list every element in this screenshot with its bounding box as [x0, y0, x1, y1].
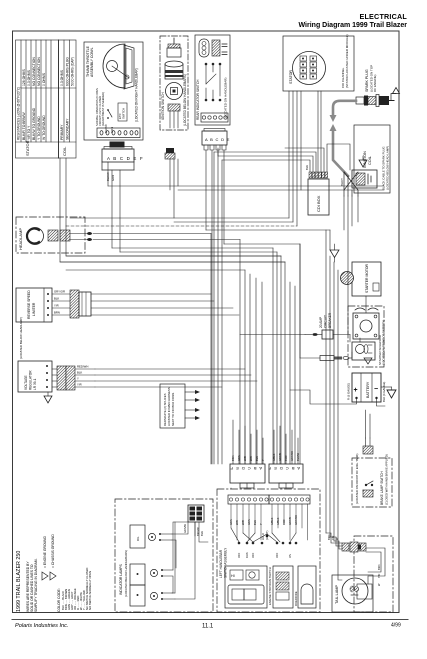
limiter wires: [91, 293, 211, 295]
throttle wires down: [107, 162, 109, 186]
svg-text:HI-LO: HI-LO: [261, 533, 265, 540]
svg-text:COIL: COIL: [62, 146, 67, 156]
svg-text:LR 39-1: LR 39-1: [33, 378, 37, 390]
svg-text:NO SWITCH NORMALLY OPEN: NO SWITCH NORMALLY OPEN: [88, 571, 92, 610]
svg-text:BLK: BLK: [255, 456, 259, 461]
svg-text:(LOCATED ON FRONT OF ENG. TANK: (LOCATED ON FRONT OF ENG. TANK): [355, 453, 359, 504]
svg-text:Y: Y: [77, 377, 79, 381]
svg-text:20 AMP: 20 AMP: [319, 317, 323, 328]
svg-text:+: +: [354, 387, 358, 394]
svg-text:(LOCATED BELOW HANDLEBARS): (LOCATED BELOW HANDLEBARS): [183, 74, 187, 126]
voltage regulator: [18, 317, 95, 403]
svg-text:(LOCATED ON RIGHT HANDLEBAR): (LOCATED ON RIGHT HANDLEBAR): [135, 68, 139, 122]
svg-text:FOR: FOR: [284, 455, 288, 461]
svg-text:OFF: OFF: [237, 552, 241, 558]
ground legend chassis: [50, 572, 56, 580]
svg-text:ELECTRICAL: ELECTRICAL: [359, 12, 407, 21]
svg-text:A/BLK: A/BLK: [272, 453, 276, 461]
svg-text:REAR INDICATOR SWITCH: REAR INDICATOR SWITCH: [196, 79, 200, 120]
ground legend engine: [42, 572, 48, 580]
svg-text:GRN: GRN: [237, 455, 241, 461]
svg-text:4/99: 4/99: [391, 623, 401, 629]
contact diagram: [205, 63, 221, 101]
svg-text:LIMITER: LIMITER: [32, 302, 36, 316]
svg-text:BRN: BRN: [231, 455, 235, 461]
svg-text:GRN: GRN: [111, 175, 115, 181]
svg-text:Y: Y: [261, 459, 265, 461]
svg-text:GRY/OR: GRY/OR: [54, 290, 65, 294]
svg-text:COLOR CODE:: COLOR CODE:: [57, 588, 61, 612]
svg-text:OIL: OIL: [136, 536, 140, 541]
svg-text:Y: Y: [259, 523, 263, 525]
svg-text:LEFT HANDLEBAR: LEFT HANDLEBAR: [219, 549, 223, 578]
svg-text:BLK: BLK: [305, 165, 309, 170]
svg-text:GRY/OR: GRY/OR: [290, 451, 294, 461]
svg-text:BLK/Y: BLK/Y: [340, 178, 344, 186]
headlamp: [16, 217, 92, 253]
svg-text:= ENGINE GROUND: = ENGINE GROUND: [43, 536, 47, 568]
main harness wires: [60, 91, 385, 584]
ground (battery): [387, 390, 396, 398]
svg-text:GRY/R: GRY/R: [288, 517, 292, 525]
key switch circle: [166, 83, 183, 100]
svg-text:GRN: GRN: [229, 519, 233, 525]
fuse feed: [299, 244, 301, 358]
svg-text:RUN: RUN: [245, 552, 249, 558]
svg-text:Wiring Diagram 1999 Trail Blaz: Wiring Diagram 1999 Trail Blazer: [299, 22, 408, 29]
connector below box: [166, 148, 174, 153]
svg-text:STATOR: STATOR: [25, 140, 30, 156]
ETC switch: [118, 103, 127, 121]
svg-text:A B C D E F: A B C D E F: [267, 466, 300, 471]
breaker feed: [240, 334, 305, 336]
rear switch connector wires down: [205, 150, 207, 230]
svg-text:CDI CHANNEL: CDI CHANNEL: [341, 67, 345, 88]
svg-text:A B C D E: A B C D E: [205, 137, 230, 142]
svg-text:OFF: OFF: [275, 552, 279, 558]
svg-text:A B C D E F: A B C D E F: [229, 466, 262, 471]
coil cylinder: [165, 61, 183, 67]
throttle connector strip: [97, 128, 140, 138]
in-line fuse: [300, 356, 352, 361]
svg-text:SWITCH: SWITCH: [122, 108, 126, 119]
rear indicator lower connector: [202, 129, 230, 151]
svg-text:SPARK PLUG: SPARK PLUG: [365, 69, 369, 92]
ground (starter): [330, 250, 339, 258]
left handlebar switch assembly: [217, 489, 320, 612]
svg-text:BATTERY: BATTERY: [366, 381, 370, 398]
tail lamp wires: [326, 533, 342, 543]
svg-text:GRY/R: GRY/R: [278, 453, 282, 461]
vertical bundle center-left: [210, 234, 212, 465]
svg-text:ASSEMBLY CONN.: ASSEMBLY CONN.: [90, 47, 94, 77]
wire stubs and labels: [231, 504, 308, 540]
ground (coil): [359, 160, 367, 167]
svg-text:5000 OHMS (CAP): 5000 OHMS (CAP): [71, 57, 75, 86]
horizontal buses: [108, 185, 384, 187]
brake lamp switch: [352, 438, 392, 507]
svg-text:A B C D E F: A B C D E F: [107, 156, 144, 161]
ground (regulator): [44, 396, 52, 403]
svg-text:6300 OHMS PLUG: 6300 OHMS PLUG: [66, 57, 70, 86]
sidebar notes: [16, 534, 92, 612]
svg-text:(LIGHT): (LIGHT): [265, 530, 269, 540]
svg-text:HI: HI: [231, 574, 235, 578]
svg-text:W: W: [377, 583, 381, 586]
svg-text:11.1: 11.1: [202, 624, 214, 630]
svg-text:REVERSE SPEED: REVERSE SPEED: [27, 290, 31, 319]
svg-text:CDI BOX: CDI BOX: [316, 195, 321, 212]
svg-text:PRIMARY: PRIMARY: [60, 124, 64, 140]
high tension cable arrows: [330, 101, 357, 176]
bottom sub boxes: [225, 566, 267, 608]
regulator connectors: [57, 366, 66, 390]
brake lamp wires: [365, 410, 367, 438]
right-side drops from coil area: [343, 196, 345, 230]
stator down wires: [288, 91, 290, 218]
svg-text:GRN: GRN: [247, 519, 251, 525]
circuit breaker: [305, 312, 350, 339]
svg-text:Y/R: Y/R: [331, 536, 335, 540]
svg-text:Y/R: Y/R: [54, 304, 59, 308]
limiter connector: [70, 290, 79, 318]
svg-text:W/B: W/B: [243, 456, 247, 461]
splice note: [160, 384, 200, 428]
svg-text:Y/R TO Y: Y/R TO Y: [27, 125, 31, 140]
reverse speed limiter: [16, 288, 91, 322]
battery plus wire: [290, 390, 357, 404]
svg-text:BRAKE LAMP SWITCH: BRAKE LAMP SWITCH: [380, 471, 384, 505]
svg-text:BLK/W: BLK/W: [296, 452, 300, 461]
svg-text:STARTER SOLENOID: STARTER SOLENOID: [378, 334, 382, 365]
thumb throttle assembly: [84, 42, 143, 140]
CDI box: [305, 165, 329, 215]
tail lamp: [327, 534, 393, 612]
svg-text:W: W: [335, 537, 339, 540]
svg-text:BLK/W TO GROUND: BLK/W TO GROUND: [32, 107, 36, 140]
brake switch connector: [363, 446, 373, 454]
svg-text:W/R: W/R: [235, 520, 239, 525]
svg-text:126 OHMS: 126 OHMS: [22, 68, 26, 86]
svg-text:FOR: FOR: [282, 519, 286, 525]
ignition switch column: [160, 36, 188, 159]
svg-text:GRY/OR: GRY/OR: [294, 515, 298, 525]
svg-text:0 OHMS: 0 OHMS: [42, 72, 46, 86]
svg-text:HEADLAMP: HEADLAMP: [18, 228, 23, 250]
svg-text:SECONDARY: SECONDARY: [66, 118, 70, 140]
ground (solenoid): [364, 358, 372, 364]
svg-text:(LOCATED IN FRONT OF BATTERY): (LOCATED IN FRONT OF BATTERY): [382, 320, 386, 365]
svg-text:W/R: W/R: [249, 456, 253, 461]
svg-text:BLK (6 GAUGE): BLK (6 GAUGE): [382, 382, 386, 402]
svg-text:GRN/W: GRN/W: [183, 524, 187, 533]
svg-text:IGNITION SWITCH: IGNITION SWITCH: [161, 92, 165, 120]
indicator lamps: [115, 499, 213, 612]
svg-text:−: −: [374, 386, 378, 393]
coil body: [352, 170, 377, 188]
svg-text:(LOCATED BELOW HANDLEBARS): (LOCATED BELOW HANDLEBARS): [124, 550, 128, 597]
ground (spark plug): [393, 88, 400, 94]
contact diagram: [231, 528, 297, 544]
svg-text:= CHASSIS GROUND: = CHASSIS GROUND: [51, 534, 55, 568]
svg-text:W TO GROUND: W TO GROUND: [42, 115, 46, 140]
svg-text:ENGINE STOP/RUN SWITCH: ENGINE STOP/RUN SWITCH: [268, 567, 272, 605]
svg-text:NO CONNECTION: NO CONNECTION: [37, 57, 41, 86]
svg-text:A/BLK: A/BLK: [270, 517, 274, 525]
solenoid to starter: [359, 338, 361, 342]
svg-text:INDICATOR LAMPS: INDICATOR LAMPS: [119, 563, 123, 595]
svg-text:Y TO GROUND: Y TO GROUND: [37, 116, 41, 140]
svg-text:CIRCUIT: CIRCUIT: [324, 315, 328, 328]
svg-text:W/B: W/B: [241, 520, 245, 525]
svg-text:0.3 OHMS: 0.3 OHMS: [27, 69, 31, 86]
svg-text:0.3 OHMS: 0.3 OHMS: [60, 69, 64, 86]
svg-text:(LOCATED ON HANDLEBAR): (LOCATED ON HANDLEBAR): [224, 78, 228, 118]
ignition switch wires down: [169, 159, 171, 190]
svg-text:OVERRIDE: OVERRIDE: [294, 591, 298, 606]
cdi wires up-left: [222, 160, 310, 172]
stator: [283, 34, 354, 91]
svg-text:(CLOSED WITH HAND BRAKE APPLIE: (CLOSED WITH HAND BRAKE APPLIED): [385, 454, 389, 505]
rear indicator switch: [195, 35, 230, 125]
tail connector: [342, 542, 366, 552]
svg-text:Polaris Industries Inc.: Polaris Industries Inc.: [15, 623, 68, 629]
svg-text:RED/WH: RED/WH: [77, 365, 88, 369]
bottom connector stub wires: [232, 420, 234, 464]
svg-text:STATOR: STATOR: [289, 70, 293, 84]
svg-text:BLK: BLK: [77, 371, 82, 375]
pin strips: [228, 495, 269, 504]
svg-text:STARTER MOTOR: STARTER MOTOR: [365, 263, 369, 293]
starter motor: [330, 244, 381, 296]
svg-text:BLK: BLK: [200, 531, 204, 536]
handlebar connector wires up: [230, 488, 232, 489]
svg-text:NO CONNECTION: NO CONNECTION: [32, 57, 36, 86]
harness connector right: [267, 464, 303, 488]
svg-text:SIMPLIFY TRACING IN DIAGRAM.: SIMPLIFY TRACING IN DIAGRAM.: [34, 558, 38, 612]
pin strip: [201, 113, 228, 122]
resistance table: [16, 40, 77, 158]
svg-text:OF ENGINE): OF ENGINE): [373, 74, 377, 92]
svg-text:1999 TRAIL BLAZER 250: 1999 TRAIL BLAZER 250: [16, 551, 22, 612]
svg-text:RESISTANCES (±20% @ 68°F/20°C): RESISTANCES (±20% @ 68°F/20°C): [17, 87, 21, 140]
svg-text:(LOCATED BELOW HEAD LAMP): (LOCATED BELOW HEAD LAMP): [386, 146, 390, 190]
battery: [347, 373, 397, 402]
svg-text:(STATOR LOCATED UNDER MODULE): (STATOR LOCATED UNDER MODULE): [345, 34, 349, 88]
svg-text:BRN/W: BRN/W: [196, 527, 200, 536]
svg-text:NEXT TO CDI BOX CONN.: NEXT TO CDI BOX CONN.: [171, 392, 175, 426]
svg-text:SWITCH ASSEMBLY: SWITCH ASSEMBLY: [224, 547, 228, 578]
indicator wires: [163, 522, 208, 599]
svg-text:(LOCATED BELOW HEADLAMP): (LOCATED BELOW HEADLAMP): [19, 317, 23, 359]
svg-text:R (6 GAUGE): R (6 GAUGE): [347, 383, 351, 400]
svg-text:REGULATOR: REGULATOR: [29, 370, 33, 390]
svg-text:BLK: BLK: [54, 297, 59, 301]
wire color labels bottom connectors: [231, 451, 300, 461]
regulator wires: [95, 368, 245, 370]
antenna cap component: [173, 38, 175, 44]
lower connector: [168, 104, 180, 111]
oil lamp: [130, 525, 145, 548]
svg-text:BRN: BRN: [377, 564, 381, 570]
svg-text:A/BLK: A/BLK: [276, 517, 280, 525]
svg-text:BRN: BRN: [54, 311, 60, 315]
svg-text:BLK: BLK: [253, 520, 257, 525]
ignition coil: [340, 125, 390, 196]
lower lamps: [130, 564, 145, 585]
svg-text:VOLTAGE: VOLTAGE: [24, 375, 28, 390]
svg-text:ON: ON: [288, 554, 292, 558]
corners feeding right bundle: [59, 158, 61, 218]
svg-text:OFF: OFF: [251, 552, 255, 558]
svg-text:TAIL LAMP: TAIL LAMP: [335, 585, 339, 604]
throttle lower connector: [102, 142, 144, 181]
svg-text:Y/R: Y/R: [77, 383, 82, 387]
starter solenoid: [348, 306, 386, 367]
svg-text:BLK/R TO BRN/W: BLK/R TO BRN/W: [22, 112, 26, 140]
harness connector left: [229, 464, 265, 488]
X wires into coil: [344, 172, 358, 196]
svg-text:(ADJUSTMENT IS NEEDED): (ADJUSTMENT IS NEEDED): [101, 92, 105, 126]
spark plug: [356, 65, 400, 107]
verticals to bottom connectors: [239, 240, 241, 465]
svg-text:COIL: COIL: [368, 156, 372, 165]
connector block: [188, 505, 204, 522]
